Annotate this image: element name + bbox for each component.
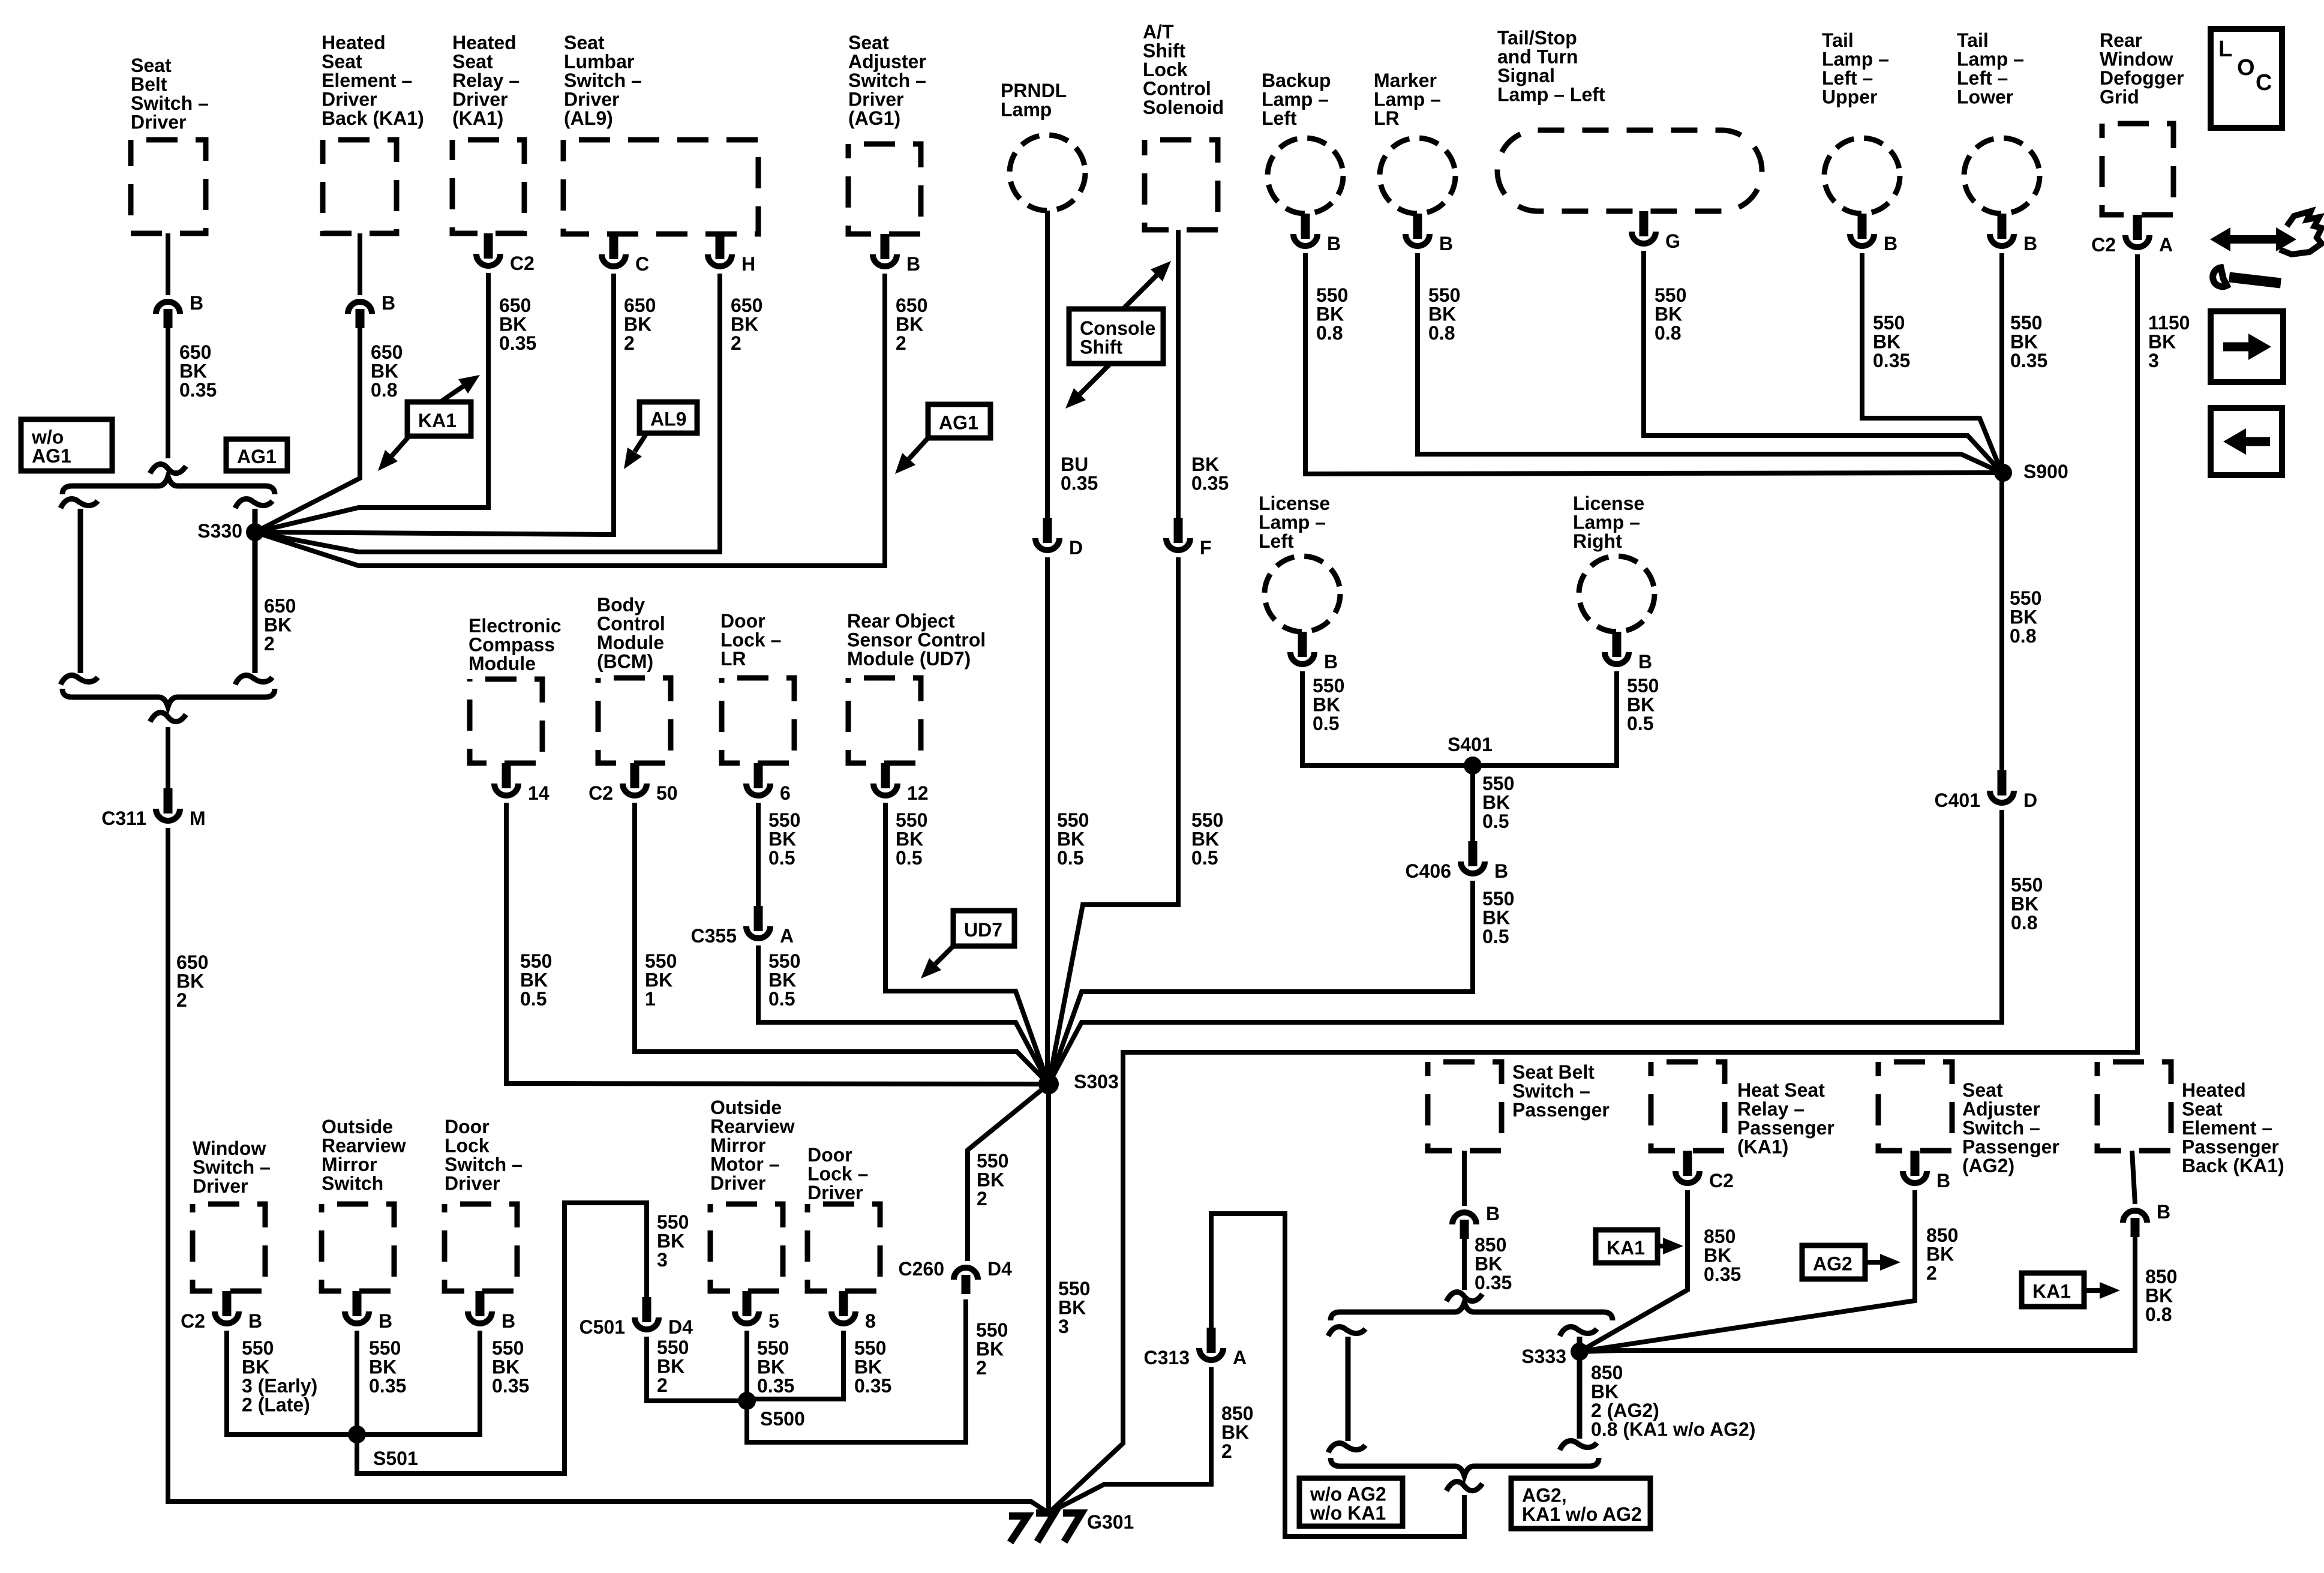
connector B license lamp right: [1605, 632, 1629, 664]
hook S333 path top: [1560, 1327, 1597, 1336]
svg-text:C406: C406: [1406, 860, 1452, 882]
wire 550 BK 0.8 S900 to C401: [1999, 473, 2004, 770]
component Seat Lumbar Switch - Driver: [563, 140, 758, 234]
svg-text:B: B: [1884, 233, 1897, 254]
svg-text:B: B: [382, 292, 395, 314]
connector A body connector C313: [1199, 1328, 1223, 1360]
wire solenoid BK 0.35: [1176, 230, 1181, 518]
component Heated Seat Element - Passenger Back: [2097, 1062, 2171, 1151]
callout box AG2: [1802, 1245, 1865, 1279]
component Heated Seat Relay - Driver: [452, 140, 524, 233]
brace bottom of S333 options: [1331, 1458, 1599, 1476]
wire 550 BK 0.5 sensor to S303: [885, 803, 1049, 1084]
component A/T Shift Lock Control Solenoid: [1145, 140, 1218, 230]
connector B body connector C406: [1461, 841, 1485, 873]
svg-text:w/o AG2w/o KA1: w/o AG2w/o KA1: [1310, 1484, 1386, 1524]
svg-text:S501: S501: [373, 1448, 418, 1469]
svg-text:A: A: [1233, 1347, 1247, 1368]
wire 850 BK 0.35 relay passenger to S333: [1580, 1190, 1688, 1352]
wire 550 BK 0.35 mirror motor to S500: [744, 1331, 749, 1401]
wire 850 BK 2 C313 to G301: [1049, 1367, 1211, 1513]
svg-text:B: B: [2157, 1201, 2170, 1223]
wire 550 BK 0.5 C406 to S303: [1049, 881, 1473, 1084]
svg-text:C401: C401: [1935, 789, 1981, 811]
hook AG1 path top: [235, 499, 272, 508]
option box w/o AG1: [21, 419, 112, 471]
wire 650 BK 2 lumbar C to S330: [255, 274, 614, 535]
wire S500 to C260: [747, 1299, 966, 1442]
component Marker Lamp - LR: [1380, 138, 1455, 214]
connector H seat lumbar switch: [708, 234, 732, 266]
ground G301: [1009, 1513, 1082, 1542]
wire 550 BK 2 S303 to C260: [968, 1084, 1049, 1261]
connector 50 BCM (C2): [623, 763, 647, 795]
component Electronic Compass Module: [470, 679, 542, 763]
arrow AG2 to adjuster passenger wire: [1865, 1254, 1900, 1271]
connector C2 heat seat relay passenger: [1676, 1151, 1700, 1183]
component Rear Window Defogger Grid: [2102, 124, 2173, 215]
component Seat Adjuster Switch - Passenger: [1878, 1062, 1952, 1151]
callout box KA1 passenger relay: [1596, 1230, 1658, 1263]
svg-text:B: B: [1494, 860, 1508, 882]
svg-text:F: F: [1200, 537, 1212, 559]
svg-text:H: H: [741, 253, 755, 275]
connector B seat belt switch: [156, 302, 180, 328]
svg-text:14: 14: [528, 782, 550, 804]
wire to C311: [166, 727, 170, 788]
option box AG1: [226, 439, 287, 471]
connector M body connector C311: [156, 788, 180, 821]
component Seat Belt Switch - Passenger: [1428, 1062, 1502, 1151]
wire 650 BK 2 to G301: [168, 828, 1049, 1513]
component Heated Seat Element - Driver Back: [323, 140, 397, 233]
wire break to S333 brace: [1446, 1292, 1482, 1301]
wire 550 BK 0.8 C401 to S303: [1049, 810, 2002, 1084]
wire 650 BK 2 lumbar H to S330: [255, 274, 720, 552]
svg-text:B: B: [2023, 233, 2037, 254]
wire 650 BK 0.35 relay to S330: [255, 273, 488, 532]
wire PRNDL lamp BU 0.35: [1045, 211, 1050, 518]
svg-text:B: B: [1486, 1203, 1500, 1224]
svg-text:C501: C501: [580, 1316, 626, 1338]
component Tail Lamp - Left - Lower: [1964, 138, 2040, 214]
brace top of S330 options: [62, 476, 275, 494]
legend LOC box: [2211, 29, 2282, 128]
connector G tail/stop lamp: [1632, 211, 1656, 244]
hook w/o path top: [1328, 1327, 1365, 1336]
wire 550 BK 0.8 tail/stop to S900: [1644, 251, 2002, 473]
arrow KA1 to relay wire: [440, 375, 480, 402]
svg-text:B: B: [1327, 233, 1341, 254]
svg-text:AL9: AL9: [650, 408, 686, 430]
svg-text:C: C: [635, 253, 649, 275]
wire 550 BK 0.5 license right to S401: [1473, 671, 1617, 766]
option box w/o AG2 w/o KA1: [1299, 1478, 1403, 1526]
svg-text:G301: G301: [1087, 1511, 1134, 1533]
arrow Console Shift to solenoid wire: [1124, 261, 1171, 308]
splice S303: [1038, 1074, 1059, 1094]
wire 550 BK 0.5 S401 to C406: [1470, 766, 1475, 841]
wire break below brace: [150, 713, 186, 722]
component Outside Rearview Mirror Switch: [322, 1204, 394, 1291]
svg-text:D: D: [1069, 537, 1083, 559]
wire 550 BK 1 BCM to S303: [635, 803, 1049, 1084]
svg-text:B: B: [379, 1310, 392, 1332]
wire break to brace: [150, 464, 186, 473]
component Window Switch - Driver: [193, 1204, 265, 1291]
wire AG1 path through S330: [253, 509, 258, 673]
splice S333: [1571, 1343, 1589, 1361]
svg-text:B: B: [1324, 651, 1338, 673]
wire 550 BK 3 S303 to G301: [1046, 1084, 1051, 1513]
wire 550 BK 0.8 backup lamp to S900: [1305, 253, 2002, 474]
arrow KA1 to element wire: [378, 436, 409, 471]
svg-text:C2: C2: [181, 1310, 205, 1332]
svg-text:B: B: [190, 292, 203, 314]
callout box Console Shift: [1069, 309, 1163, 364]
connector 12 rear object sensor: [873, 763, 897, 795]
svg-text:D4: D4: [668, 1316, 693, 1338]
splice S501: [348, 1425, 366, 1443]
svg-text:M: M: [190, 807, 206, 829]
component Rear Object Sensor Control Module: [848, 678, 921, 763]
svg-text:AG1: AG1: [939, 412, 978, 433]
wire S333 path: [1577, 1337, 1583, 1439]
svg-text:O: O: [2237, 55, 2255, 80]
wire 550 BK 0.5 compass to S303: [506, 803, 1049, 1084]
svg-text:S401: S401: [1448, 734, 1493, 755]
connector B marker lamp: [1406, 214, 1430, 246]
wire 1150 BK 3 defogger to G301: [1049, 254, 2137, 1513]
component PRNDL Lamp: [1010, 135, 1085, 211]
svg-text:C311: C311: [101, 807, 146, 829]
connector B license lamp left: [1290, 632, 1314, 664]
connector D4 body connector C260: [954, 1268, 978, 1294]
splice S500: [738, 1392, 756, 1410]
svg-text:KA1: KA1: [1607, 1237, 1645, 1259]
hook S333 path bottom: [1560, 1441, 1597, 1450]
wire 550 BK 0.5 PRNDL to S303: [1045, 557, 1050, 1084]
wire 650 BK 0.35 seat belt: [166, 328, 170, 458]
connector A body connector C355: [746, 906, 770, 938]
connector B tail lamp upper: [1850, 214, 1874, 246]
wire w/o AG2 alternate path: [1346, 1337, 1351, 1441]
wire 550 BK 0.5 solenoid to S303: [1049, 557, 1178, 1084]
connector D PRNDL: [1035, 518, 1059, 550]
callout box KA1 passenger element: [2022, 1273, 2084, 1307]
svg-text:C355: C355: [691, 925, 737, 947]
connector F solenoid: [1166, 518, 1190, 550]
component Backup Lamp - Left: [1268, 138, 1343, 214]
svg-text:B: B: [906, 253, 920, 275]
wire 850 BK 2 adjuster passenger to S333: [1580, 1190, 1915, 1352]
wire 550 BK 2 C501 to S500: [647, 1337, 747, 1401]
svg-text:C313: C313: [1144, 1347, 1190, 1368]
wire 550 BK 0.35 door lock to S500: [747, 1331, 843, 1399]
connector D4 body connector C501: [635, 1297, 659, 1329]
svg-text:12: 12: [907, 782, 929, 804]
callout box UD7: [953, 911, 1014, 946]
wire heated element lead: [358, 233, 362, 295]
callout box AL9: [639, 402, 697, 433]
wire seat belt passenger lead: [1462, 1151, 1467, 1206]
wire 550 BK 0.35 tail upper to S900: [1862, 253, 2002, 473]
icon hand with double arrow and wrench: [2210, 211, 2322, 287]
arrow Console Shift to PRNDL wire: [1065, 365, 1109, 409]
callout box KA1: [407, 402, 471, 436]
wire S333 options to C313: [1211, 1214, 1464, 1536]
svg-text:KA1: KA1: [2032, 1280, 2071, 1302]
component Door Lock Switch - Driver: [445, 1204, 517, 1291]
arrow AG1 to adjuster wire: [895, 438, 928, 474]
component License Lamp - Left: [1265, 556, 1340, 632]
component Seat Belt Switch - Driver: [131, 140, 206, 233]
svg-text:B: B: [1439, 233, 1453, 254]
connector B heated element passenger: [2123, 1211, 2147, 1237]
hook w/o path bottom: [1328, 1443, 1365, 1452]
svg-text:B: B: [1936, 1170, 1950, 1191]
connector A rear defogger (C2): [2125, 215, 2149, 247]
wire 650 BK 2 adjuster to S330: [255, 274, 885, 566]
option box AG2, KA1 w/o AG2: [1511, 1478, 1650, 1529]
connector B heated seat element: [348, 302, 372, 328]
wire 550 BK window switch to S501: [227, 1331, 357, 1434]
svg-text:5: 5: [768, 1310, 779, 1332]
callout box AG1 right: [928, 404, 990, 438]
component Seat Adjuster Switch - Driver: [848, 144, 921, 234]
hook AG1 path bottom: [235, 676, 272, 685]
svg-text:B: B: [248, 1310, 262, 1332]
connector C2 heated seat relay: [476, 233, 500, 266]
connector B seat adjuster switch: [873, 234, 897, 266]
wire 550 BK 0.8 marker lamp to S900: [1418, 253, 2002, 473]
svg-text:KA1: KA1: [418, 410, 457, 431]
connector C seat lumbar switch: [602, 234, 626, 266]
splice S330: [246, 523, 264, 541]
wire 850 BK 0.35 seat belt passenger: [1462, 1239, 1467, 1290]
component Tail/Stop and Turn Signal Lamp - Left: [1497, 130, 1762, 211]
component License Lamp - Right: [1579, 556, 1655, 632]
arrow KA1 to relay passenger wire: [1658, 1238, 1683, 1254]
svg-text:B: B: [1638, 651, 1652, 673]
connector 8 door lock driver: [831, 1291, 855, 1323]
wire break below S333 brace: [1446, 1482, 1482, 1491]
connector B seat belt passenger: [1452, 1212, 1476, 1239]
svg-text:6: 6: [780, 782, 791, 804]
hook w/o AG1 path bottom: [61, 676, 98, 685]
svg-text:S333: S333: [1521, 1346, 1566, 1367]
connector 14 compass module: [494, 763, 518, 795]
arrow UD7 to sensor wire: [921, 946, 953, 978]
svg-text:C2: C2: [588, 782, 613, 804]
svg-text:D4: D4: [987, 1258, 1012, 1280]
component Door Lock - LR: [722, 678, 794, 763]
wire 650 BK 0.8 to S330: [255, 328, 360, 532]
legend arrow box right: [2211, 311, 2283, 382]
svg-text:C260: C260: [899, 1258, 945, 1280]
splice S401: [1464, 757, 1482, 775]
svg-text:S303: S303: [1074, 1071, 1119, 1092]
component Outside Rearview Mirror Motor - Driver: [710, 1204, 783, 1291]
connector B window switch (C2): [215, 1291, 239, 1323]
arrow KA1 to element passenger wire: [2084, 1282, 2120, 1299]
wire 550 BK 3 S501 to C501: [357, 1203, 647, 1473]
brace top of S333 options: [1331, 1302, 1613, 1320]
svg-text:C: C: [2256, 70, 2272, 95]
svg-text:AG2: AG2: [1813, 1253, 1852, 1274]
wire w/o AG1 alternate path: [78, 509, 83, 673]
brace bottom of S330 options: [62, 689, 275, 707]
wire 550 BK 0.35 mirror switch to S501: [355, 1331, 359, 1434]
connector B backup lamp: [1293, 214, 1317, 246]
connector B seat adjuster passenger: [1903, 1151, 1927, 1183]
svg-text:C2: C2: [1709, 1170, 1734, 1191]
svg-text:D: D: [2023, 789, 2037, 811]
svg-text:B: B: [502, 1310, 515, 1332]
wire 550 BK 0.35 door lock switch to S501: [357, 1331, 480, 1434]
connector B mirror switch: [345, 1291, 369, 1323]
wire 550 BK 0.5 to C355: [756, 803, 761, 906]
component Door Lock - Driver: [807, 1204, 880, 1291]
svg-text:S900: S900: [2023, 461, 2068, 482]
svg-text:AG1: AG1: [237, 446, 277, 467]
svg-text:S500: S500: [760, 1408, 805, 1430]
svg-text:G: G: [1665, 230, 1680, 252]
wire 550 BK 0.5 C355 to S303: [758, 945, 1049, 1084]
wire heated element passenger lead: [2132, 1151, 2135, 1204]
svg-text:50: 50: [656, 782, 678, 804]
connector 5 mirror motor: [735, 1291, 759, 1323]
wire 550 BK 0.5 license left to S401: [1302, 671, 1473, 766]
svg-text:L: L: [2218, 37, 2232, 62]
wire 550 BK 0.35 tail lower to S900: [1999, 253, 2004, 473]
svg-text:A: A: [780, 925, 794, 947]
wire 850 BK 0.8 element passenger to S333: [1580, 1237, 2135, 1352]
svg-text:A: A: [2159, 234, 2173, 256]
component Tail Lamp - Left - Upper: [1824, 138, 1900, 214]
connector 6 door lock LR: [746, 763, 770, 795]
svg-text:C2: C2: [510, 253, 535, 274]
component Heat Seat Relay - Passenger: [1651, 1062, 1725, 1151]
svg-text:S330: S330: [197, 520, 242, 542]
component Body Control Module: [598, 678, 671, 763]
hook w/o AG1 path top: [61, 499, 98, 508]
connector B tail lamp lower: [1990, 214, 2014, 246]
wire seat belt switch lead: [166, 233, 170, 295]
legend arrow box left: [2211, 408, 2282, 475]
svg-text:8: 8: [865, 1310, 876, 1332]
splice S900: [1994, 464, 2012, 482]
svg-text:UD7: UD7: [964, 919, 1002, 941]
svg-text:C2: C2: [2091, 234, 2116, 256]
arrow AL9 to lumbar wires: [624, 433, 647, 469]
connector D body connector C401: [1990, 770, 2014, 803]
connector B door lock switch: [468, 1291, 492, 1323]
